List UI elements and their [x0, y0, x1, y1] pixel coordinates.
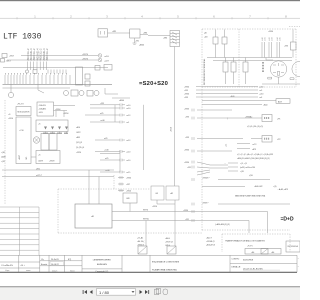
svg-text:+A1 30,(: +A1 30,(: [137, 240, 145, 243]
svg-text:+a1Θ: +a1Θ: [104, 61, 109, 63]
svg-text:-A10: -A10: [76, 126, 80, 129]
svg-text:+F1+F2: +F1+F2: [17, 104, 24, 106]
svg-text:+W1Θ (3: +W1Θ (3: [165, 242, 173, 244]
svg-text:+w30: +w30: [104, 150, 109, 152]
svg-text:-A73: -A73: [252, 148, 256, 151]
svg-text:+w30: +w30: [100, 120, 105, 122]
svg-text:+W13: +W13: [6, 61, 11, 63]
svg-text:+(30: +(30: [1, 152, 5, 154]
svg-text:CONTR.:: CONTR.:: [232, 258, 241, 260]
svg-text:wA39: wA39: [1, 156, 6, 159]
svg-text:Name: Name: [70, 270, 75, 272]
svg-text:DISTRIBUIDOR PRINCIPAL: DISTRIBUIDOR PRINCIPAL: [203, 58, 206, 85]
svg-text:-(3,-(3,-(30,-(3),-(5): -(3,-(3,-(30,-(3),-(5): [247, 126, 263, 128]
svg-text:EHINGEN: EHINGEN: [97, 264, 107, 266]
svg-text:+W34Θ *: +W34Θ *: [202, 178, 210, 180]
svg-text:W9 ML: W9 ML: [143, 219, 149, 221]
svg-text:14.06.22: 14.06.22: [51, 264, 60, 266]
svg-text:+W17: +W17: [9, 56, 14, 58]
svg-text:+w30: +w30: [105, 170, 110, 172]
svg-text:-S3: -S3: [155, 193, 158, 195]
svg-text:-A300: -A300: [119, 99, 124, 102]
svg-text:-A30,(30,-A30C,(300,(300,(W30,: -A30,(30,-A30C,(300,(300,(W30,(3),(3): [237, 157, 270, 160]
svg-text:name: name: [26, 270, 31, 272]
svg-text:-W22: -W22: [76, 132, 81, 134]
svg-text:→: →: [224, 163, 226, 165]
svg-text:-A10,A7 (3: -A10,A7 (3: [206, 244, 215, 247]
svg-text:(+A30,A50,(3),(3): (+A30,A50,(3),(3): [215, 223, 230, 226]
svg-text:602167808: 602167808: [243, 259, 254, 261]
svg-text:W9 M: W9 M: [143, 210, 148, 212]
svg-text:+A50: +A50: [263, 104, 267, 107]
svg-text:(3,1),(3: (3,1),(3: [76, 142, 82, 144]
svg-text:+a5: +a5: [259, 90, 262, 92]
svg-text:-W1: -W1: [26, 157, 28, 160]
svg-text:-/P1: -/P1: [277, 119, 280, 121]
svg-text:+W3: +W3: [284, 46, 288, 48]
svg-text:+W30: +W30: [183, 210, 188, 212]
svg-text:+a15: +a15: [126, 172, 130, 174]
svg-text:+A1Θ: +A1Θ: [165, 237, 170, 240]
svg-text:LV w/Blw 8%: LV w/Blw 8%: [2, 265, 14, 267]
svg-text:-10A 31L: -10A 31L: [39, 104, 47, 107]
svg-text:+a13: +a13: [126, 140, 130, 142]
svg-text:(3,,(35,,(4: (3,,(35,,(4: [76, 147, 84, 149]
svg-text:+W30: +W30: [184, 87, 189, 89]
svg-text:-A1: -A1: [91, 215, 94, 218]
svg-text:Datum: Datum: [52, 269, 58, 272]
svg-text:-b35: -b35: [280, 37, 282, 41]
svg-text:MODULATOR: MODULATOR: [18, 111, 31, 114]
svg-text:+W30: +W30: [268, 31, 273, 33]
svg-text:-A2: -A2: [170, 192, 173, 195]
svg-text:+W3: +W3: [185, 116, 189, 118]
svg-text:+A30: +A30: [230, 95, 234, 98]
svg-text:-A95: -A95: [76, 136, 80, 139]
svg-text:-W40 31L-2: -W40 31L-2: [46, 48, 49, 61]
svg-text:+B1L: +B1L: [39, 112, 43, 114]
svg-text:+W30: +W30: [184, 94, 189, 96]
svg-text:PLATAFORMA GIRATORIA: PLATAFORMA GIRATORIA: [152, 268, 177, 271]
svg-text:Copyright (C): Copyright (C): [95, 270, 108, 273]
svg-text:+W30A (: +W30A (: [245, 116, 253, 119]
svg-text:-b33: -b33: [272, 37, 274, 41]
svg-text:+W3: +W3: [185, 137, 189, 139]
svg-text:+C10: +C10: [19, 130, 24, 132]
svg-text:-W2Θ: -W2Θ: [38, 161, 43, 163]
svg-text:=D+D: =D+D: [281, 217, 294, 223]
svg-text:+W10B (3: +W10B (3: [206, 241, 214, 243]
svg-text:+W5: +W5: [184, 90, 188, 92]
svg-text:+W2Θ: +W2Θ: [49, 161, 55, 163]
svg-text:+A1: +A1: [271, 251, 274, 254]
svg-text:+W30: +W30: [126, 178, 131, 180]
svg-text:=S20+S20: =S20+S20: [139, 81, 168, 87]
svg-text:+(20: +(20: [240, 171, 244, 173]
svg-text:-10A A31: -10A A31: [39, 107, 47, 110]
svg-text:-b31: -b31: [265, 37, 267, 41]
svg-text:w29: w29: [104, 138, 107, 140]
svg-text:+W1: +W1: [187, 167, 191, 169]
svg-text:+a3: +a3: [259, 97, 262, 99]
svg-text:RETICENCIA: RETICENCIA: [288, 245, 299, 248]
svg-text:-W8: -W8: [126, 198, 129, 200]
svg-text:+F+F1: +F+F1: [247, 246, 253, 248]
svg-text:+W170: +W170: [82, 58, 88, 60]
svg-text:+W7: +W7: [126, 184, 130, 186]
svg-text:MANIOBRA PLATAFORMA GIRATORIA: MANIOBRA PLATAFORMA GIRATORIA: [235, 195, 266, 198]
svg-text:26.Jb.81: 26.Jb.81: [51, 259, 60, 261]
svg-text:+W10: +W10: [8, 118, 13, 120]
svg-text:-A537: -A537: [18, 155, 21, 160]
svg-text:LIEBHERR WERK: LIEBHERR WERK: [93, 259, 112, 261]
svg-text:+a30: +a30: [259, 94, 263, 96]
svg-text:TRANSFORMADOR DE ANILLOS ROZAN: TRANSFORMADOR DE ANILLOS ROZANTES: [225, 240, 266, 243]
svg-text:1 / 80: 1 / 80: [99, 290, 110, 295]
svg-text:+W3: +W3: [184, 97, 188, 99]
svg-text:Ch,: Ch,: [41, 259, 45, 261]
svg-text:+W5: +W5: [100, 103, 104, 105]
svg-text:w25: w25: [100, 113, 103, 115]
svg-text:+a10: +a10: [126, 108, 130, 110]
svg-text:-/P2: -/P2: [277, 139, 280, 141]
svg-text:+W170: +W170: [82, 54, 88, 56]
svg-text:+W20: +W20: [126, 191, 131, 193]
svg-text:+W30: +W30: [184, 162, 189, 164]
svg-text:+W3Θ *: +W3Θ *: [202, 202, 209, 204]
svg-text:+a10: +a10: [126, 152, 130, 154]
svg-text:w25: w25: [105, 158, 108, 160]
svg-text:LTF 1030: LTF 1030: [3, 33, 42, 42]
svg-text:E?): E?): [68, 259, 71, 261]
svg-text:-A300: -A300: [139, 44, 144, 47]
svg-text:(w33)+w30+w230: (w33)+w30+w230: [240, 167, 255, 169]
svg-text:+a73: +a73: [252, 144, 256, 146]
svg-text:+A1: +A1: [251, 251, 254, 254]
svg-text:+a2Θ: +a2Θ: [104, 56, 109, 58]
svg-text:+a1: +a1: [126, 122, 129, 124]
svg-text:-23,-A1: -23,-A1: [137, 237, 143, 240]
svg-text:+a10: +a10: [126, 105, 130, 107]
svg-text:+W20: +W20: [76, 152, 81, 154]
svg-text:+(3 ,+(3: +(3 ,+(3: [240, 163, 247, 165]
svg-text:-(3Θ: -(3Θ: [249, 175, 253, 177]
svg-text:+(20: +(20: [1, 161, 5, 163]
svg-text:+W1: +W1: [185, 219, 189, 221]
svg-text:+W10: +W10: [171, 127, 173, 132]
svg-text:ESQUEMA DE CONEXIONES: ESQUEMA DE CONEXIONES: [152, 260, 180, 263]
svg-text:+a13: +a13: [126, 115, 130, 117]
svg-text:+a1: +a1: [226, 144, 228, 147]
svg-text:+W1: +W1: [135, 41, 139, 43]
svg-text:+A10 7: +A10 7: [206, 237, 212, 240]
svg-text:+W30: +W30: [184, 149, 189, 151]
svg-text:DETALLE:: DETALLE:: [232, 265, 242, 268]
svg-text:Urspr.: Urspr.: [5, 270, 10, 272]
svg-text:+W33: +W33: [184, 108, 189, 110]
svg-text:uW1: uW1: [36, 168, 40, 170]
svg-text:-(C,-(C,-(C,+(A,+(C,+(3·(A,+(C: -(C,-(C,-(C,+(A,+(C,+(3·(A,+(C,+(3·(A,-(…: [237, 153, 273, 156]
svg-text:+a10: +a10: [126, 160, 130, 162]
svg-text:Ersetzt: Ersetzt: [41, 263, 48, 266]
svg-text:+A30+W2: +A30+W2: [254, 185, 262, 188]
svg-text:4.4 t: 4.4 t: [21, 264, 25, 267]
svg-text:+a30: +a30: [259, 87, 263, 89]
svg-text:→A,A3,+A73: →A,A3,+A73: [277, 188, 288, 191]
svg-text:A5Θ: A5Θ: [278, 100, 282, 103]
svg-text:+W10: +W10: [152, 206, 157, 208]
svg-text:w225 ?: w225 ?: [36, 175, 42, 177]
